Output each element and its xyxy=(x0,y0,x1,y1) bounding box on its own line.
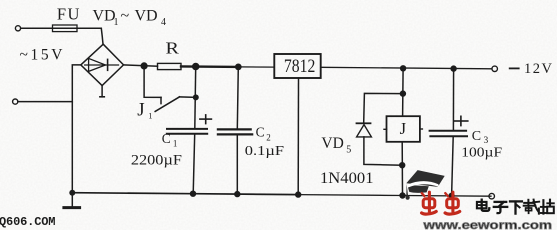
junction node: J1 blade to C1 lead xyxy=(193,94,199,100)
svg-text:3: 3 xyxy=(484,136,489,146)
char zhan xyxy=(542,200,544,213)
junction node: ground corner xyxy=(69,190,75,196)
svg-text:1N4001: 1N4001 xyxy=(320,170,374,187)
svg-text:1: 1 xyxy=(173,139,178,149)
watermark graduation cap xyxy=(406,170,445,200)
svg-text:VD: VD xyxy=(321,135,343,152)
svg-text:0.1µF: 0.1µF xyxy=(245,144,284,159)
svg-text:VD: VD xyxy=(93,8,116,25)
svg-text:2: 2 xyxy=(266,132,271,142)
svg-text:J: J xyxy=(137,100,144,121)
svg-text:1: 1 xyxy=(148,110,152,120)
svg-text:R: R xyxy=(166,39,180,58)
wire: top input to fuse and to bridge top xyxy=(21,27,102,29)
wire: bend down to bridge top corner xyxy=(101,28,103,44)
svg-text:~15V: ~15V xyxy=(20,46,64,63)
C3 plus sign xyxy=(454,120,468,122)
svg-text:VD: VD xyxy=(135,8,158,25)
svg-text:~: ~ xyxy=(121,8,130,25)
junction node: rail at C2 xyxy=(235,64,242,71)
output terminal bottom (R) xyxy=(489,193,495,199)
watermark bug 1 (red) xyxy=(422,192,437,214)
output terminal top (R) xyxy=(492,66,498,72)
char zai xyxy=(524,202,533,204)
C1 plus sign xyxy=(200,118,212,120)
junction node: VD5 top link xyxy=(400,90,406,96)
junction node: rail after R xyxy=(192,63,200,71)
capacitor C2 branch xyxy=(237,67,238,129)
top rail: R to C2 node xyxy=(181,65,238,68)
diode VD5 branch xyxy=(364,93,403,122)
fuse FU xyxy=(53,25,78,32)
svg-text:Q606.COM: Q606.COM xyxy=(0,215,56,229)
junction node: rail at C3 xyxy=(450,65,456,71)
bridge bottom stub xyxy=(101,86,103,97)
relay J branch vertical xyxy=(402,68,405,116)
svg-text:5: 5 xyxy=(346,144,351,155)
capacitor C3 branch xyxy=(452,69,454,131)
junction node: bus at C3 xyxy=(448,193,454,199)
svg-text:FU: FU xyxy=(57,5,81,24)
watermark text dianzi xiazaizhan (CJK strokes) xyxy=(477,200,554,214)
wire: bridge left corner to left vertical xyxy=(72,65,81,193)
svg-text:C: C xyxy=(472,129,481,144)
svg-text:100µF: 100µF xyxy=(461,146,502,161)
minus sign of -12V xyxy=(510,67,519,69)
svg-text:C: C xyxy=(256,125,265,140)
char dian xyxy=(477,202,487,208)
wire: bottom input to left vertical xyxy=(18,101,72,103)
7812 ground lead xyxy=(297,78,299,195)
J1 relay contact branch xyxy=(144,66,161,98)
bridge rectifier VD1~VD4 (diamond) xyxy=(81,44,124,85)
svg-text:www.eeworm.com: www.eeworm.com xyxy=(422,218,552,230)
junction node: bus at 7812 gnd xyxy=(295,191,301,197)
junction node: rail after bridge xyxy=(141,62,148,69)
junction node: rail at relay branch xyxy=(400,65,406,71)
watermark bug 2 (red) xyxy=(445,192,460,214)
svg-text:7812: 7812 xyxy=(284,56,315,77)
junction node: bus at C1 xyxy=(190,191,196,197)
junction node: bus at relay branch xyxy=(399,192,405,198)
ground xyxy=(71,193,73,207)
svg-text:1: 1 xyxy=(114,17,119,28)
bottom bus wire (right) xyxy=(298,195,491,197)
svg-text:2200µF: 2200µF xyxy=(131,152,182,168)
char xia xyxy=(510,200,522,202)
top rail: bridge to R xyxy=(124,65,158,66)
bridge inner diode xyxy=(85,64,119,66)
regulator 7812 xyxy=(274,54,320,78)
bottom bus wire (left) xyxy=(72,193,298,195)
svg-text:12V: 12V xyxy=(524,61,553,77)
resistor R xyxy=(158,63,182,69)
svg-text:C: C xyxy=(162,131,171,146)
top rail: C2 node to 7812 xyxy=(238,66,274,68)
junction node: bus at C2 xyxy=(234,191,240,197)
svg-text:4: 4 xyxy=(161,17,166,28)
char zi xyxy=(495,201,507,203)
svg-text:J: J xyxy=(400,119,407,138)
junction node: VD5 bottom link xyxy=(399,162,405,168)
input terminal bottom (L) xyxy=(13,99,18,104)
capacitor C1 branch xyxy=(194,67,197,129)
input terminal top (L) xyxy=(15,26,20,31)
top rail: 7812 to output xyxy=(321,67,492,69)
relay coil J box xyxy=(387,116,420,142)
